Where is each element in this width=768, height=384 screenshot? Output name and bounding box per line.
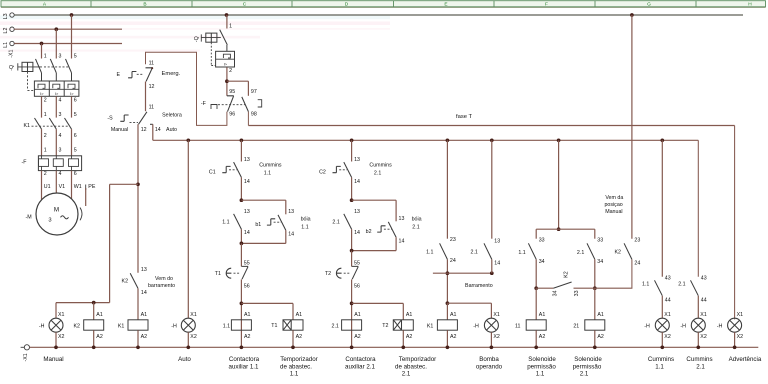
- svg-text:PE: PE: [88, 184, 96, 190]
- svg-text:A1: A1: [141, 312, 148, 318]
- svg-text:56: 56: [244, 283, 250, 289]
- svg-text:2: 2: [229, 68, 232, 74]
- svg-text:A2: A2: [141, 334, 148, 340]
- svg-text:Solenoide: Solenoide: [574, 356, 602, 363]
- svg-text:b2: b2: [366, 229, 372, 235]
- svg-text:T1: T1: [271, 323, 277, 329]
- svg-text:13: 13: [244, 209, 250, 215]
- svg-text:1.1: 1.1: [426, 249, 433, 255]
- svg-text:A2: A2: [354, 334, 361, 340]
- svg-text:Bomba: Bomba: [479, 356, 499, 363]
- svg-text:Temporizador: Temporizador: [399, 356, 436, 363]
- svg-text:1: 1: [44, 148, 47, 154]
- svg-text:33: 33: [597, 237, 603, 243]
- svg-text:C: C: [243, 2, 247, 8]
- svg-text:23: 23: [450, 237, 456, 243]
- svg-text:X2: X2: [700, 334, 707, 340]
- svg-text:13: 13: [244, 157, 250, 163]
- svg-text:13: 13: [354, 209, 360, 215]
- svg-text:Vem da: Vem da: [605, 195, 623, 201]
- svg-text:12: 12: [141, 127, 147, 133]
- svg-text:auxiliar 1.1: auxiliar 1.1: [229, 363, 259, 370]
- svg-text:2: 2: [44, 133, 47, 139]
- svg-text:43: 43: [665, 276, 671, 282]
- svg-text:2.1: 2.1: [696, 363, 705, 370]
- svg-text:34: 34: [552, 290, 558, 296]
- svg-text:1.1: 1.1: [301, 224, 308, 230]
- svg-text:K1: K1: [118, 323, 125, 329]
- svg-text:2.1: 2.1: [402, 370, 411, 377]
- svg-text:K1: K1: [427, 323, 434, 329]
- svg-text:55: 55: [244, 260, 250, 266]
- svg-text:14: 14: [244, 179, 250, 185]
- svg-text:2.1: 2.1: [577, 250, 584, 256]
- svg-text:A2: A2: [597, 334, 604, 340]
- svg-text:T1: T1: [215, 271, 221, 277]
- svg-text:X1: X1: [190, 312, 197, 318]
- svg-text:X1: X1: [58, 312, 65, 318]
- svg-text:Manual: Manual: [111, 127, 128, 133]
- svg-text:Solenoide: Solenoide: [528, 356, 556, 363]
- svg-text:X2: X2: [190, 334, 197, 340]
- svg-text:X2: X2: [58, 334, 65, 340]
- svg-text:H: H: [748, 2, 752, 8]
- svg-text:13: 13: [354, 157, 360, 163]
- svg-text:-S: -S: [107, 116, 113, 122]
- svg-text:11: 11: [149, 105, 155, 111]
- svg-text:43: 43: [701, 276, 707, 282]
- svg-text:13: 13: [494, 239, 500, 245]
- svg-text:13: 13: [399, 216, 405, 222]
- svg-text:13: 13: [141, 267, 147, 273]
- svg-text:11: 11: [149, 61, 155, 67]
- svg-text:barramento: barramento: [148, 283, 175, 289]
- svg-text:A2: A2: [96, 334, 103, 340]
- svg-text:L1: L1: [3, 42, 9, 48]
- svg-text:Cummins: Cummins: [648, 356, 674, 363]
- svg-text:2.1: 2.1: [332, 220, 339, 226]
- svg-text:A1: A1: [244, 312, 251, 318]
- svg-text:permissão: permissão: [527, 363, 556, 370]
- svg-text:Contactora: Contactora: [345, 356, 376, 363]
- svg-text:14: 14: [354, 179, 360, 185]
- svg-text:A2: A2: [406, 334, 413, 340]
- svg-text:-H: -H: [680, 323, 686, 329]
- svg-text:Barramento: Barramento: [465, 283, 493, 289]
- svg-text:55: 55: [354, 260, 360, 266]
- svg-text:4: 4: [59, 133, 62, 139]
- svg-text:B: B: [143, 2, 146, 8]
- svg-text:2.1: 2.1: [471, 249, 478, 255]
- svg-text:96: 96: [229, 111, 235, 117]
- svg-text:Cummins: Cummins: [259, 163, 282, 169]
- svg-text:1.1: 1.1: [223, 323, 230, 329]
- svg-text:-H: -H: [644, 323, 650, 329]
- svg-text:Advertência: Advertência: [729, 356, 762, 363]
- svg-text:D: D: [345, 2, 349, 8]
- svg-text:Vem do: Vem do: [155, 276, 173, 282]
- svg-text:-H: -H: [473, 323, 479, 329]
- svg-text:X1: X1: [664, 312, 671, 318]
- svg-text:1.1: 1.1: [655, 363, 664, 370]
- svg-text:2.1: 2.1: [580, 370, 589, 377]
- svg-text:X2: X2: [737, 334, 744, 340]
- svg-text:-M: -M: [26, 214, 32, 220]
- svg-text:auxiliar 2.1: auxiliar 2.1: [345, 363, 375, 370]
- svg-text:6: 6: [74, 97, 77, 103]
- svg-text:A1: A1: [406, 312, 413, 318]
- svg-text:K2: K2: [563, 271, 569, 278]
- svg-text:X2: X2: [493, 334, 500, 340]
- svg-text:33: 33: [574, 290, 580, 296]
- svg-text:A2: A2: [296, 334, 303, 340]
- svg-text:X1: X1: [737, 312, 744, 318]
- svg-text:5: 5: [74, 112, 77, 118]
- svg-text:L3: L3: [3, 13, 9, 19]
- svg-text:1.1: 1.1: [536, 370, 545, 377]
- svg-text:6: 6: [74, 171, 77, 177]
- svg-text:2.1: 2.1: [412, 224, 419, 230]
- svg-text:11: 11: [515, 323, 521, 329]
- svg-text:97: 97: [251, 89, 257, 95]
- svg-text:W1: W1: [74, 184, 82, 190]
- svg-text:1: 1: [44, 112, 47, 118]
- svg-text:-X1: -X1: [23, 353, 29, 361]
- svg-text:permissão: permissão: [573, 363, 602, 370]
- svg-text:Temporizador: Temporizador: [280, 356, 317, 363]
- svg-text:posiçao: posiçao: [604, 202, 622, 208]
- svg-text:-F: -F: [201, 101, 207, 107]
- svg-text:24: 24: [634, 261, 640, 267]
- svg-text:6: 6: [74, 133, 77, 139]
- svg-text:2.1: 2.1: [374, 171, 381, 177]
- svg-text:E: E: [444, 2, 447, 8]
- svg-text:-F: -F: [22, 160, 28, 166]
- svg-text:A1: A1: [597, 312, 604, 318]
- svg-text:14: 14: [494, 260, 500, 266]
- svg-text:2.1: 2.1: [678, 282, 685, 288]
- svg-text:U1: U1: [44, 184, 51, 190]
- svg-text:33: 33: [539, 237, 545, 243]
- svg-text:X1: X1: [700, 312, 707, 318]
- svg-text:1.1: 1.1: [518, 250, 525, 256]
- svg-text:95: 95: [229, 89, 235, 95]
- svg-text:-H: -H: [717, 323, 723, 329]
- svg-text:-H: -H: [39, 323, 45, 329]
- svg-text:21: 21: [573, 323, 579, 329]
- svg-text:3: 3: [48, 218, 51, 224]
- svg-text:-X1: -X1: [8, 50, 14, 58]
- svg-text:Cummins: Cummins: [686, 356, 712, 363]
- svg-text:A1: A1: [296, 312, 303, 318]
- svg-text:1: 1: [229, 24, 232, 30]
- svg-text:A1: A1: [539, 312, 546, 318]
- svg-text:K2: K2: [614, 249, 621, 255]
- svg-text:1: 1: [44, 54, 47, 60]
- svg-text:Auto: Auto: [166, 127, 177, 133]
- svg-text:23: 23: [634, 237, 640, 243]
- svg-text:-Q: -Q: [194, 36, 200, 42]
- svg-text:fase T: fase T: [456, 114, 472, 120]
- svg-text:L2: L2: [3, 28, 9, 34]
- svg-text:X2: X2: [664, 334, 671, 340]
- svg-text:K2: K2: [74, 323, 81, 329]
- svg-text:4: 4: [59, 171, 62, 177]
- svg-text:3: 3: [59, 148, 62, 154]
- svg-text:A1: A1: [354, 312, 361, 318]
- svg-text:operando: operando: [476, 363, 503, 370]
- svg-text:2: 2: [44, 97, 47, 103]
- svg-text:3: 3: [59, 54, 62, 60]
- svg-text:24: 24: [450, 258, 456, 264]
- svg-text:5: 5: [74, 54, 77, 60]
- svg-text:Cummins: Cummins: [369, 163, 392, 169]
- svg-text:14: 14: [244, 230, 250, 236]
- svg-text:14: 14: [399, 238, 405, 244]
- svg-text:bóia: bóia: [301, 217, 311, 223]
- svg-text:12: 12: [149, 84, 155, 90]
- svg-text:1.1: 1.1: [222, 220, 229, 226]
- svg-text:de abastec.: de abastec.: [280, 363, 312, 370]
- svg-text:M: M: [54, 207, 59, 214]
- svg-text:-Q: -Q: [9, 65, 15, 71]
- svg-text:V1: V1: [59, 184, 66, 190]
- svg-text:b1: b1: [255, 222, 261, 228]
- svg-text:E: E: [117, 72, 121, 78]
- svg-text:56: 56: [354, 283, 360, 289]
- svg-text:K2: K2: [122, 278, 129, 284]
- svg-text:2.1: 2.1: [332, 323, 339, 329]
- svg-text:C2: C2: [319, 169, 326, 175]
- svg-text:bóia: bóia: [412, 217, 422, 223]
- svg-text:14: 14: [288, 231, 294, 237]
- svg-text:T2: T2: [325, 271, 331, 277]
- svg-text:A2: A2: [450, 334, 457, 340]
- svg-text:1.1: 1.1: [290, 370, 299, 377]
- svg-text:44: 44: [701, 297, 707, 303]
- svg-text:Manual: Manual: [43, 356, 63, 363]
- svg-text:A2: A2: [539, 334, 546, 340]
- svg-text:14: 14: [354, 230, 360, 236]
- svg-text:Auto: Auto: [178, 356, 191, 363]
- svg-text:A1: A1: [96, 312, 103, 318]
- svg-text:de abastec.: de abastec.: [395, 363, 427, 370]
- svg-text:-H: -H: [171, 323, 177, 329]
- svg-text:Seletora: Seletora: [162, 113, 182, 119]
- svg-text:A2: A2: [244, 334, 251, 340]
- svg-text:3: 3: [59, 112, 62, 118]
- svg-text:A1: A1: [450, 312, 457, 318]
- svg-text:F: F: [545, 2, 548, 8]
- svg-text:Contactora: Contactora: [229, 356, 260, 363]
- svg-text:14: 14: [155, 127, 161, 133]
- svg-text:X1: X1: [493, 312, 500, 318]
- svg-text:C1: C1: [209, 169, 216, 175]
- svg-text:34: 34: [597, 259, 603, 265]
- svg-text:Manual: Manual: [605, 209, 622, 215]
- svg-text:K1: K1: [24, 123, 31, 129]
- svg-text:44: 44: [665, 297, 671, 303]
- svg-text:2: 2: [44, 171, 47, 177]
- svg-text:Emerg.: Emerg.: [162, 71, 181, 77]
- svg-text:13: 13: [288, 209, 294, 215]
- svg-text:5: 5: [74, 148, 77, 154]
- svg-text:34: 34: [539, 259, 545, 265]
- svg-text:14: 14: [141, 290, 147, 296]
- svg-text:T2: T2: [382, 323, 388, 329]
- svg-text:G: G: [647, 2, 651, 8]
- svg-text:98: 98: [251, 111, 257, 117]
- svg-text:1.1: 1.1: [642, 282, 649, 288]
- svg-text:4: 4: [59, 97, 62, 103]
- svg-text:1.1: 1.1: [264, 171, 271, 177]
